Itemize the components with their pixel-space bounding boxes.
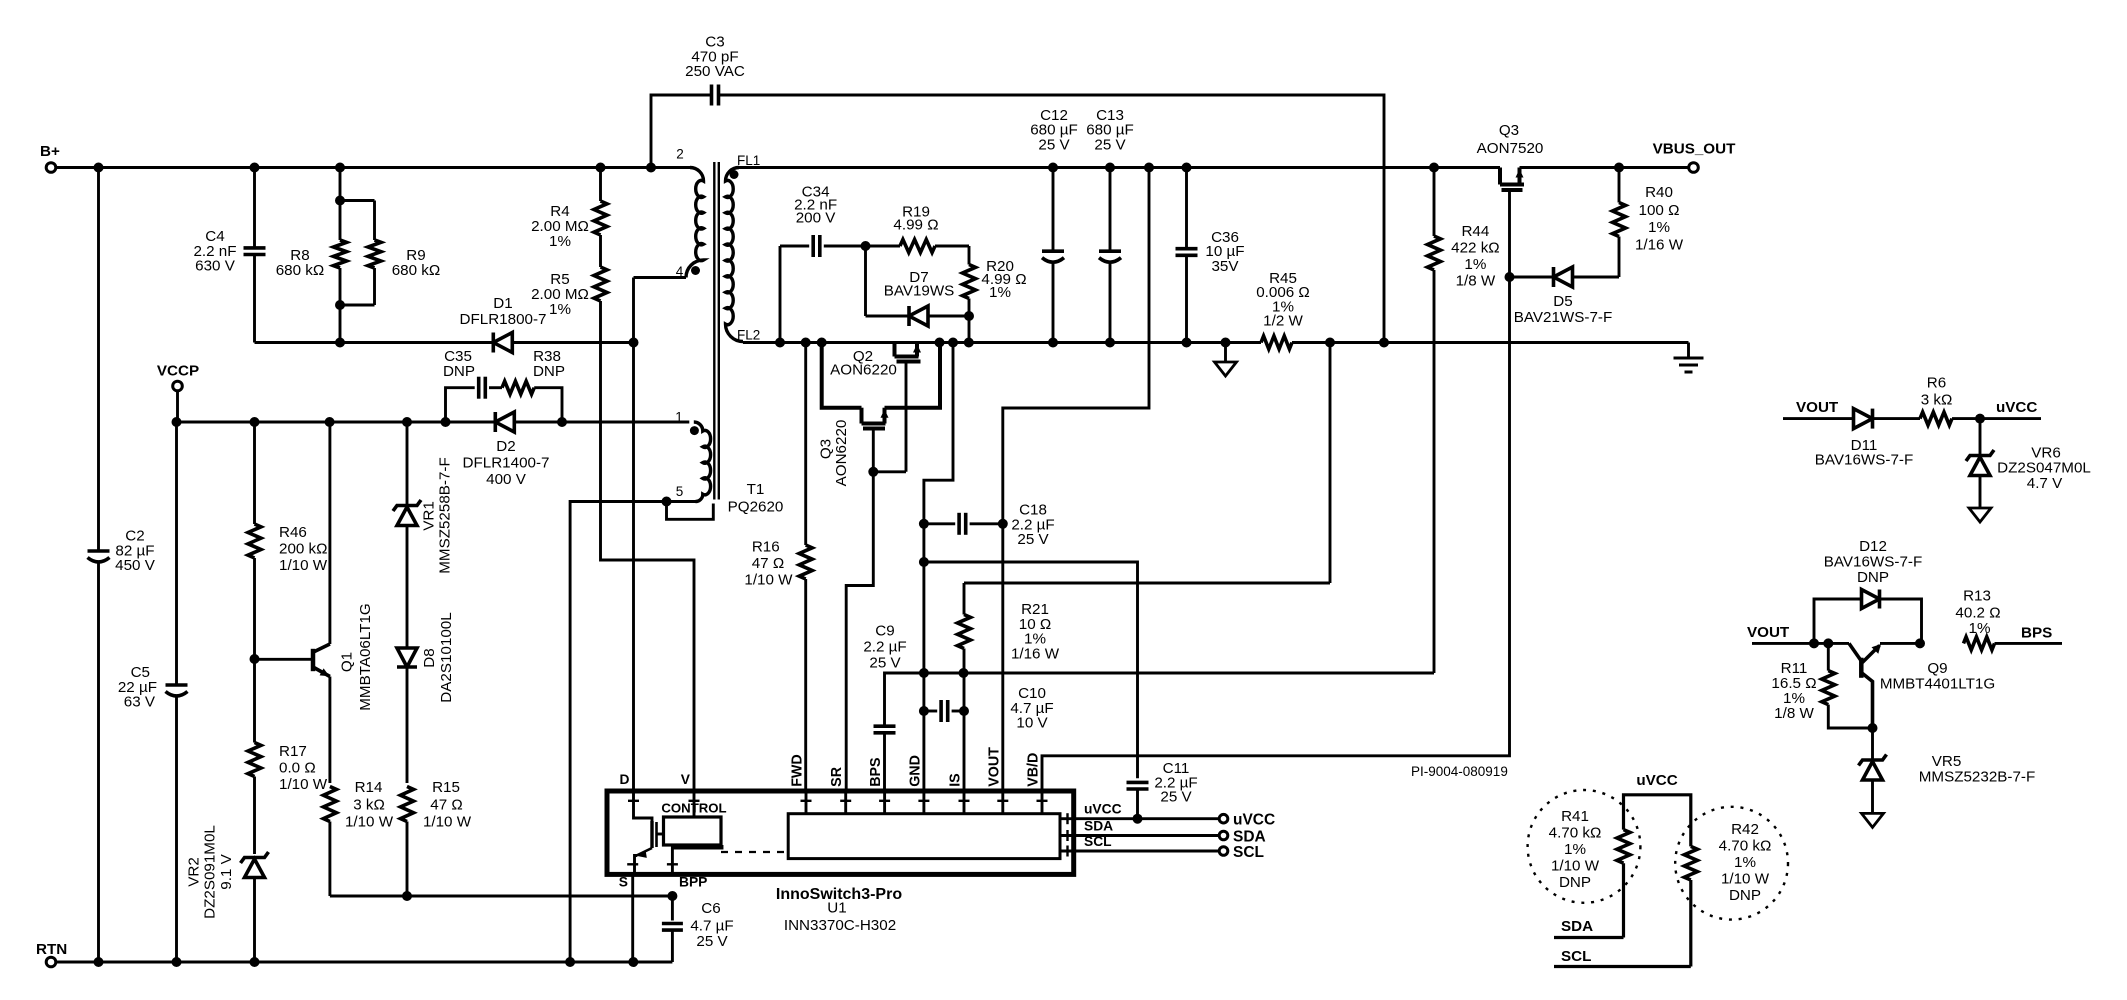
svg-text:DZ2S091M0L: DZ2S091M0L — [202, 825, 219, 919]
svg-text:DNP: DNP — [1857, 569, 1889, 586]
junction Q9 collector/VR5 — [1868, 723, 1878, 733]
wire left rail B+ to RTN — [97, 168, 100, 552]
svg-text:4.70 kΩ: 4.70 kΩ — [1549, 825, 1602, 842]
Q2 source loop — [822, 343, 862, 408]
junction D1/drain line — [629, 338, 639, 348]
junction GND lineB — [919, 668, 929, 678]
transformer T1 secondary winding FL1-FL2 — [726, 168, 744, 342]
dashed circle R41 — [1528, 790, 1641, 903]
junction C34/R19 — [861, 241, 871, 251]
svg-text:FL2: FL2 — [737, 328, 760, 343]
junction RTN left rail — [94, 957, 104, 967]
svg-text:FWD: FWD — [790, 754, 806, 787]
svg-text:uVCC: uVCC — [1636, 772, 1677, 789]
junction R4 top — [596, 163, 606, 173]
junction C3 tap — [646, 163, 656, 173]
svg-text:PQ2620: PQ2620 — [728, 499, 784, 516]
resistor R41 DNP — [1617, 830, 1630, 864]
wire gates to SR pin — [846, 472, 873, 791]
svg-text:1%: 1% — [989, 284, 1011, 301]
U1 dashed link — [721, 851, 788, 853]
U1 V pin to CONTROL — [693, 791, 696, 817]
junction R8/R9 bottom — [335, 300, 345, 310]
wire R14 to BPP line — [330, 895, 673, 898]
svg-text:IS: IS — [948, 773, 964, 787]
Q3 drain loop to return — [885, 343, 941, 408]
svg-text:R46: R46 — [279, 524, 307, 541]
svg-text:AON6220: AON6220 — [833, 420, 850, 487]
wire D7 to return — [968, 316, 971, 343]
svg-text:VR5: VR5 — [1932, 753, 1962, 770]
resistor R19 — [866, 245, 901, 248]
svg-text:680 kΩ: 680 kΩ — [276, 262, 325, 279]
junction R8 top — [335, 163, 345, 173]
zener VR5 MMSZ5232B-7-F — [1871, 728, 1874, 759]
pin 4 polarity dot — [691, 266, 700, 275]
svg-text:T1: T1 — [747, 481, 765, 498]
junction B+ rail — [94, 163, 104, 173]
svg-text:1/16 W: 1/16 W — [1635, 237, 1684, 254]
junction Q5 gate/D5 — [1505, 272, 1515, 282]
svg-text:3 kΩ: 3 kΩ — [1921, 392, 1953, 409]
svg-text:VR1: VR1 — [421, 501, 438, 531]
svg-text:D2: D2 — [496, 438, 515, 455]
svg-text:D5: D5 — [1553, 293, 1572, 310]
svg-text:1/10 W: 1/10 W — [1721, 871, 1770, 888]
capacitor C3 — [710, 85, 714, 106]
svg-text:5: 5 — [676, 484, 684, 499]
junction VR1 top — [402, 417, 412, 427]
wire R8/R9 top bar — [339, 168, 342, 201]
junction C10 right — [959, 706, 969, 716]
svg-text:R40: R40 — [1645, 184, 1673, 201]
junction C12 top — [1048, 163, 1058, 173]
output return ground arrow — [1224, 343, 1227, 363]
svg-text:BAV16WS-7-F: BAV16WS-7-F — [1815, 452, 1913, 469]
junction R20/D7 — [964, 311, 974, 321]
resistor R38 DNP — [502, 381, 534, 394]
wire IS pin line — [963, 673, 966, 791]
svg-text:SCL: SCL — [1561, 948, 1591, 965]
resistor R13 — [1964, 637, 1995, 650]
junction C10 left — [919, 706, 929, 716]
svg-text:MMBTA06LT1G: MMBTA06LT1G — [357, 603, 374, 710]
svg-text:2: 2 — [676, 147, 684, 162]
resistor R40 — [1618, 168, 1621, 203]
svg-text:25 V: 25 V — [1094, 136, 1126, 153]
wire C3 branch — [651, 95, 712, 168]
resistor R14 — [323, 787, 336, 822]
resistor R46 — [253, 422, 256, 524]
svg-text:1/10 W: 1/10 W — [345, 814, 394, 831]
svg-text:R13: R13 — [1963, 588, 1991, 605]
capacitor C36 — [1185, 168, 1188, 249]
Q2 gate lead — [905, 362, 908, 472]
resistor R42 DNP — [1684, 846, 1697, 880]
U1 BPP internal — [672, 845, 722, 874]
U1 pin stubs inside — [805, 791, 808, 814]
U1 pin ticks bottom — [627, 863, 638, 865]
svg-text:R41: R41 — [1561, 808, 1589, 825]
svg-text:63 V: 63 V — [124, 694, 156, 711]
svg-text:VB/D: VB/D — [1026, 753, 1042, 787]
svg-text:VOUT: VOUT — [1747, 624, 1790, 641]
resistor R21 — [963, 583, 966, 615]
SCL output line — [1060, 850, 1219, 853]
junction C18 left — [919, 519, 929, 529]
earth ground right — [1687, 343, 1690, 359]
svg-text:uVCC: uVCC — [1996, 399, 2037, 416]
svg-text:1%: 1% — [549, 233, 571, 250]
wire RTN bus — [56, 961, 672, 964]
junction clamp/R8 — [335, 338, 345, 348]
svg-text:R15: R15 — [432, 779, 460, 796]
svg-text:25 V: 25 V — [1017, 531, 1049, 548]
pin 1 polarity dot — [690, 426, 699, 435]
junction gates — [868, 467, 878, 477]
FL1 polarity dot — [730, 170, 739, 179]
svg-text:680 kΩ: 680 kΩ — [392, 262, 441, 279]
junction C13 top — [1105, 163, 1115, 173]
wire C3 to secondary return — [719, 95, 1385, 343]
capacitor C18 — [924, 522, 955, 525]
svg-text:PI-9004-080919: PI-9004-080919 — [1411, 764, 1508, 779]
svg-text:DFLR1400-7: DFLR1400-7 — [463, 455, 550, 472]
terminal SDA — [1219, 831, 1228, 840]
svg-text:47 Ω: 47 Ω — [430, 797, 462, 814]
svg-text:D12: D12 — [1859, 538, 1887, 555]
resistor R6 — [1873, 417, 1921, 420]
terminal uVCC — [1219, 814, 1228, 823]
junction GND lineA — [919, 557, 929, 567]
junction R11 top — [1823, 638, 1833, 648]
wire Q5 gate to VB/D pin — [1508, 190, 1511, 277]
svg-text:D: D — [620, 772, 630, 787]
resistor R20 — [968, 246, 971, 265]
terminal VCCP — [173, 381, 183, 391]
junction C11/uVCC — [1133, 814, 1143, 824]
junction BPP line — [667, 891, 677, 901]
junction RTN S pin — [628, 957, 638, 967]
svg-text:25 V: 25 V — [1160, 789, 1192, 806]
U1 CONTROL box — [664, 817, 722, 845]
U1 pin ticks top — [628, 800, 639, 802]
svg-text:200 kΩ: 200 kΩ — [279, 541, 328, 558]
U1 S pin wire — [631, 874, 634, 962]
svg-text:400 V: 400 V — [486, 471, 527, 488]
wire GND sense to Q3 source — [924, 343, 953, 792]
diode D8 DA2S10100L — [397, 665, 417, 669]
terminal RTN — [46, 957, 56, 967]
svg-text:1/8 W: 1/8 W — [1456, 273, 1496, 290]
svg-text:R6: R6 — [1927, 375, 1946, 392]
junction R40 top — [1614, 163, 1624, 173]
capacitor C5 — [166, 683, 188, 687]
resistor R15 — [401, 787, 414, 822]
junction D7/R20 leg — [964, 338, 974, 348]
svg-text:VOUT: VOUT — [1796, 399, 1839, 416]
diode D12 BAV16WS-7-F DNP — [1814, 599, 1862, 643]
capacitor C34 snubber — [779, 246, 782, 343]
junction RTN VCCP rail — [172, 957, 182, 967]
svg-text:SDA: SDA — [1084, 819, 1113, 834]
svg-text:1/10 W: 1/10 W — [423, 814, 472, 831]
svg-text:V: V — [681, 772, 691, 787]
svg-text:1/10 W: 1/10 W — [744, 572, 793, 589]
svg-text:1%: 1% — [1648, 219, 1670, 236]
transformer T1 primary winding pin2-pin4 — [686, 168, 704, 278]
U1 outer box — [607, 791, 1074, 874]
transformer core — [713, 162, 715, 500]
junction Q2 loop right — [935, 338, 945, 348]
svg-text:S: S — [619, 874, 628, 889]
junction C36 bottom — [1182, 338, 1192, 348]
junction C34 left — [775, 338, 785, 348]
junction C12 bottom — [1048, 338, 1058, 348]
svg-text:R14: R14 — [355, 779, 383, 796]
FET Q3 AON7520 VBUS switch — [1498, 168, 1502, 185]
svg-text:0.0 Ω: 0.0 Ω — [279, 760, 316, 777]
svg-text:U1: U1 — [827, 900, 846, 917]
diode D5 BAV21WS-7-F — [1573, 276, 1620, 279]
zener VR1 MMSZ5258B-7-F — [406, 422, 409, 505]
svg-text:MMSZ5258B-7-F: MMSZ5258B-7-F — [437, 457, 454, 573]
svg-text:9.1 V: 9.1 V — [218, 853, 235, 889]
svg-text:VR2: VR2 — [186, 857, 203, 887]
capacitor C4 — [253, 168, 256, 248]
diode D2 DFLR1400-7 — [493, 412, 497, 432]
SDA output line — [1060, 834, 1219, 837]
ground arrow VR6 — [1969, 508, 1991, 522]
diode D11 BAV16WS-7-F — [1871, 409, 1875, 429]
svg-text:RTN: RTN — [36, 941, 67, 958]
resistor R8 — [339, 201, 342, 241]
uVCC output line — [1060, 817, 1219, 820]
SR FET Q3 AON6220 — [860, 408, 864, 424]
junction RTN VR2 — [250, 957, 260, 967]
wire pin4 stub — [634, 276, 687, 279]
svg-text:250 VAC: 250 VAC — [685, 63, 745, 80]
resistor R5 — [599, 235, 602, 267]
wire pin5 to RTN — [570, 502, 695, 963]
svg-text:BPS: BPS — [868, 757, 884, 786]
zener VR2 DZ2S091M0L 9.1V — [241, 852, 269, 863]
wire VOUT pin line to VBUS — [1003, 168, 1149, 792]
svg-text:100 Ω: 100 Ω — [1639, 202, 1680, 219]
svg-text:200 V: 200 V — [796, 209, 837, 226]
wire pin5 hook — [667, 502, 714, 520]
svg-text:40.2 Ω: 40.2 Ω — [1955, 605, 2000, 622]
svg-text:D1: D1 — [493, 295, 512, 312]
svg-text:Q9: Q9 — [1927, 660, 1947, 677]
svg-text:1%: 1% — [1969, 620, 1991, 637]
svg-text:4.7 V: 4.7 V — [2027, 475, 2063, 492]
U1 internal MOSFET — [634, 791, 653, 821]
capacitor C2 — [88, 549, 110, 553]
svg-text:R42: R42 — [1731, 821, 1759, 838]
svg-text:47 Ω: 47 Ω — [752, 555, 784, 572]
wire clamp bottom — [255, 341, 494, 344]
svg-text:1%: 1% — [1734, 854, 1756, 871]
svg-text:B+: B+ — [40, 143, 60, 160]
transistor Q9 MMBT4401LT1G — [1859, 658, 1864, 678]
capacitor C10 — [924, 710, 937, 713]
svg-text:R44: R44 — [1461, 223, 1489, 240]
svg-text:SR: SR — [829, 766, 845, 787]
svg-text:4.7 µF: 4.7 µF — [690, 918, 733, 935]
capacitor C13 — [1109, 168, 1112, 252]
svg-text:1: 1 — [675, 410, 683, 425]
svg-text:uVCC: uVCC — [1233, 812, 1275, 829]
svg-text:BAV21WS-7-F: BAV21WS-7-F — [1514, 309, 1612, 326]
svg-text:Q1: Q1 — [339, 652, 356, 672]
junction Q1 collector — [325, 417, 335, 427]
svg-text:35V: 35V — [1211, 258, 1239, 275]
svg-text:GND: GND — [907, 755, 923, 787]
junction R15 bottom — [402, 891, 412, 901]
junction C35 left — [441, 417, 451, 427]
svg-text:AON7520: AON7520 — [1477, 140, 1544, 157]
junction R44 top — [1429, 163, 1439, 173]
U1 right ticks — [1066, 813, 1068, 824]
capacitor C9 — [874, 724, 896, 728]
svg-text:1/10 W: 1/10 W — [279, 776, 328, 793]
svg-text:2.2 µF: 2.2 µF — [863, 639, 906, 656]
wire GND line B (BPS-GND-R44) — [885, 673, 1435, 725]
svg-text:450 V: 450 V — [115, 557, 156, 574]
svg-text:1%: 1% — [1564, 841, 1586, 858]
ground arrow VR5 — [1862, 813, 1884, 827]
wire Q5 out to VBUS_OUT — [1520, 166, 1689, 169]
junction R16/FWD — [801, 338, 811, 348]
svg-text:Q3: Q3 — [1499, 122, 1519, 139]
terminal B+ — [46, 163, 56, 173]
junction C35 right — [557, 417, 567, 427]
svg-text:1%: 1% — [1464, 256, 1486, 273]
svg-text:MMBT4401LT1G: MMBT4401LT1G — [1880, 676, 1995, 693]
Q3 gate lead — [872, 429, 875, 472]
junction Q1 base tap — [250, 654, 260, 664]
junction Q2 loop left — [817, 338, 827, 348]
SR FET Q2 AON6220 — [893, 343, 897, 357]
wire drain line pin4 to U1 D pin — [632, 278, 635, 792]
svg-text:1%: 1% — [549, 301, 571, 318]
svg-text:BAV19WS: BAV19WS — [884, 283, 955, 300]
svg-text:25 V: 25 V — [1038, 136, 1070, 153]
junction pin5 hook — [662, 497, 672, 507]
junction VR6 tap — [1975, 414, 1985, 424]
svg-text:BPS: BPS — [2021, 625, 2052, 642]
svg-text:4.99 Ω: 4.99 Ω — [893, 216, 938, 233]
svg-text:MMSZ5232B-7-F: MMSZ5232B-7-F — [1919, 769, 2035, 786]
svg-text:D8: D8 — [421, 648, 438, 667]
U1 gate link — [657, 833, 664, 836]
svg-text:SDA: SDA — [1233, 829, 1266, 846]
diode D7 BAV19WS — [864, 246, 867, 316]
svg-text:VCCP: VCCP — [157, 363, 199, 380]
svg-text:FL1: FL1 — [737, 153, 760, 168]
diode D1 DFLR1800-7 — [491, 333, 495, 353]
svg-text:1/8 W: 1/8 W — [1774, 705, 1814, 722]
svg-text:BPP: BPP — [679, 874, 707, 889]
junction C36 top — [1182, 163, 1192, 173]
resistor R11 — [1827, 643, 1830, 670]
resistor R9 — [373, 201, 376, 241]
svg-text:1/10 W: 1/10 W — [279, 557, 328, 574]
capacitor C11 — [1127, 781, 1149, 785]
junction D12 left — [1809, 638, 1819, 648]
wire B+ top bus — [56, 166, 690, 169]
wire R8/R9 bottom bar — [340, 304, 375, 307]
capacitor C35 DNP — [446, 388, 475, 422]
transistor Q1 MMBTA06LT1G — [255, 658, 314, 661]
resistor R4 — [599, 168, 602, 202]
terminal VBUS_OUT — [1689, 163, 1699, 173]
svg-text:422 kΩ: 422 kΩ — [1451, 240, 1500, 257]
U1 inner controller box — [788, 814, 1060, 859]
wire GND line A to C11 — [924, 562, 1138, 778]
wire VCCP bus — [177, 421, 690, 424]
svg-text:3 kΩ: 3 kΩ — [353, 797, 385, 814]
junction D12 right — [1915, 638, 1925, 648]
svg-text:630 V: 630 V — [195, 258, 236, 275]
shunt resistor R45 — [1261, 336, 1292, 349]
svg-text:SCL: SCL — [1084, 834, 1112, 849]
junction R45 kelvin — [1325, 338, 1335, 348]
svg-text:DNP: DNP — [1559, 874, 1591, 891]
zener VR6 DZ2S047M0L 4.7V — [1979, 419, 1982, 454]
capacitor C6 — [671, 896, 674, 921]
svg-text:VBUS_OUT: VBUS_OUT — [1653, 141, 1736, 158]
junction RTN pin5 line — [565, 957, 575, 967]
junction return gnd arrow — [1221, 338, 1231, 348]
svg-text:DNP: DNP — [533, 363, 565, 380]
wire FL1 bus — [739, 166, 1500, 169]
transformer T1 bias winding pin1-pin5 — [694, 422, 711, 502]
svg-text:4.70 kΩ: 4.70 kΩ — [1719, 838, 1772, 855]
svg-text:25 V: 25 V — [696, 933, 728, 950]
junction GND sense — [948, 338, 958, 348]
svg-text:INN3370C-H302: INN3370C-H302 — [784, 917, 896, 934]
svg-text:DNP: DNP — [443, 363, 475, 380]
svg-text:1/16 W: 1/16 W — [1011, 645, 1060, 662]
svg-text:DNP: DNP — [1729, 887, 1761, 904]
svg-text:VOUT: VOUT — [986, 747, 1002, 787]
wire FL2 return rail — [743, 341, 1261, 344]
svg-text:25 V: 25 V — [869, 655, 901, 672]
svg-text:C9: C9 — [875, 622, 894, 639]
resistor R16 — [804, 343, 807, 546]
junction C18 right — [998, 519, 1008, 529]
junction C3 leg — [1379, 338, 1389, 348]
svg-text:C6: C6 — [701, 900, 720, 917]
resistor R44 bleeder — [1433, 168, 1436, 237]
wire R5 to V pin — [601, 301, 695, 791]
svg-text:DFLR1800-7: DFLR1800-7 — [460, 311, 547, 328]
dashed circle R42 — [1675, 807, 1788, 920]
wire VCCP rail with C5 — [175, 422, 178, 685]
junction VCCP rail — [172, 417, 182, 427]
svg-text:BAV16WS-7-F: BAV16WS-7-F — [1824, 554, 1922, 571]
svg-text:R17: R17 — [279, 743, 307, 760]
junction R21 bottom — [959, 668, 969, 678]
svg-text:SCL: SCL — [1233, 844, 1264, 861]
svg-text:10 V: 10 V — [1016, 715, 1048, 732]
capacitor C12 — [1052, 168, 1055, 252]
junction VOUT drop — [1144, 163, 1154, 173]
junction R8 bar — [335, 196, 345, 206]
svg-text:uVCC: uVCC — [1084, 802, 1122, 817]
